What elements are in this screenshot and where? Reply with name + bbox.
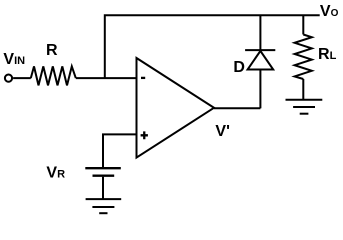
- diode D: [245, 50, 275, 69]
- battery VR: [85, 168, 121, 176]
- wire op-amp output to diode anode node: [214, 107, 260, 109]
- op-amp plus sign: [141, 131, 148, 139]
- wire diode anode vertical: [259, 70, 261, 109]
- resistor RL: [295, 35, 312, 80]
- svg-text:V': V': [215, 123, 229, 140]
- ground under RL: [286, 100, 323, 114]
- wire op-amp noninverting input to battery: [103, 134, 137, 167]
- resistor R: [31, 66, 76, 85]
- wire terminal to resistor R: [13, 77, 31, 79]
- svg-text:VR: VR: [46, 164, 65, 181]
- svg-text:VO: VO: [320, 3, 339, 20]
- wire feedback vertical and top rail to Vo: [105, 15, 320, 78]
- op-amp minus sign: [141, 77, 145, 79]
- svg-text:RL: RL: [318, 46, 337, 63]
- svg-text:R: R: [46, 42, 58, 59]
- svg-text:VIN: VIN: [3, 51, 25, 68]
- wire battery to ground: [102, 177, 104, 199]
- op-amp U1: [137, 58, 215, 158]
- input terminal (open circle): [5, 75, 12, 82]
- svg-text:D: D: [233, 59, 245, 76]
- wire top rail down to resistor RL: [302, 15, 304, 34]
- ground under battery: [86, 199, 122, 213]
- wire resistor R to op-amp inverting input: [76, 77, 137, 79]
- wire diode cathode to top rail: [259, 15, 261, 50]
- wire RL to ground: [302, 79, 304, 100]
